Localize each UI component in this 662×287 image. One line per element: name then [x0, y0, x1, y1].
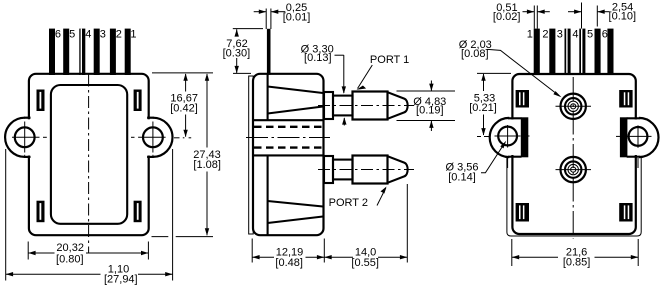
base plate bottom edge: [507, 228, 641, 237]
svg-text:[0.85]: [0.85]: [563, 256, 591, 268]
middle band top line: [254, 119, 324, 121]
back ear left arc: [490, 118, 510, 157]
top internal taper upper line: [268, 87, 323, 94]
dash-dot at ear center right: [174, 137, 180, 139]
mounting ear right arc: [153, 118, 173, 157]
pin 6: [49, 29, 55, 75]
pin top extension line: [233, 28, 263, 30]
dimension 0,51 arrows: [523, 11, 535, 13]
pin 2: [549, 29, 555, 75]
svg-text:[0.42]: [0.42]: [170, 102, 198, 114]
ear right tangent stubs: [147, 117, 154, 119]
pin 1: [534, 29, 540, 75]
dimension 12,19 line: [252, 256, 274, 258]
port 2 centerline: [318, 169, 414, 171]
svg-text:PORT 2: PORT 2: [329, 197, 368, 209]
dimension 2,54 arrows: [568, 11, 581, 13]
horizontal centerline mid: [246, 137, 330, 139]
port 1 centerline: [318, 105, 414, 107]
svg-text:[0.01]: [0.01]: [283, 11, 311, 23]
svg-text:3: 3: [557, 28, 563, 40]
sensor body outline: [29, 74, 149, 235]
ear left tangent stubs: [24, 117, 31, 119]
tab top-right: [619, 90, 632, 108]
svg-text:[0.30]: [0.30]: [223, 48, 251, 60]
hole right crosshair: [138, 136, 166, 138]
hidden dashed line lower: [254, 146, 323, 148]
pin 3: [94, 29, 100, 75]
svg-text:6: 6: [602, 28, 608, 40]
svg-text:[0.48]: [0.48]: [275, 257, 303, 269]
tab top-left: [37, 90, 45, 112]
back body outline: [512, 74, 635, 234]
dimension 5,33 line: [483, 74, 485, 91]
dimension 27,43 line: [206, 74, 208, 148]
ear left bracket bar: [521, 117, 529, 157]
svg-text:[0.80]: [0.80]: [56, 254, 84, 266]
inner cover rectangle: [51, 85, 127, 224]
mounting hole left: [15, 127, 35, 147]
pin 6: [607, 29, 613, 75]
dimension 21,6 line: [512, 256, 558, 258]
hole left crosshair: [12, 136, 40, 138]
port 1 circle outer: [561, 94, 586, 119]
svg-text:1: 1: [527, 28, 533, 40]
extension lines for 20,32: [27, 242, 29, 260]
pin 4: [79, 29, 85, 75]
hidden dashed line upper: [254, 126, 323, 128]
vertical centerline: [88, 75, 90, 253]
ear right bracket bar: [620, 117, 628, 157]
port 2 crosshair: [556, 169, 592, 171]
side body outline: [253, 74, 324, 235]
tab bottom-right: [619, 203, 632, 222]
port 2 circle rings: [565, 161, 581, 177]
svg-text:[0.14]: [0.14]: [448, 172, 476, 184]
back hole right: [629, 127, 648, 146]
hole right crosshair: [625, 135, 652, 137]
bottom extension line right: [152, 236, 169, 238]
hole left crosshair: [495, 135, 521, 137]
port 2 cone: [388, 156, 408, 183]
leader for Ø 3,56: [481, 143, 505, 173]
Ø 4,83 extension lines: [397, 90, 456, 92]
body top extension line left: [477, 72, 511, 74]
bottom internal taper lower line: [268, 217, 323, 224]
port 2 barb: [353, 156, 388, 184]
svg-text:20,32: 20,32: [56, 242, 84, 254]
svg-text:5: 5: [587, 28, 593, 40]
pin pitch extension lines: [581, 3, 583, 29]
svg-text:[0.08]: [0.08]: [461, 48, 489, 60]
svg-text:1: 1: [130, 28, 136, 40]
top extension line to dimensions: [152, 72, 213, 74]
port 1 barb: [353, 92, 388, 120]
body edge gap at left ear: [510, 120, 515, 156]
svg-text:[1.08]: [1.08]: [193, 159, 221, 171]
PORT 2 leader: [377, 188, 386, 206]
svg-text:[0.13]: [0.13]: [304, 52, 332, 64]
svg-text:[27,94]: [27,94]: [104, 274, 138, 286]
svg-text:5: 5: [69, 28, 75, 40]
tab bottom-right: [134, 201, 142, 223]
base plate edge: [249, 76, 254, 234]
internal vertical parting line upper: [267, 75, 269, 121]
dimension 1,10 line: [6, 273, 101, 275]
svg-text:[0.10]: [0.10]: [609, 11, 637, 23]
svg-text:[0.55]: [0.55]: [351, 257, 379, 269]
top internal taper lower line: [268, 107, 323, 114]
svg-text:4: 4: [85, 28, 91, 40]
pin 5: [595, 29, 601, 75]
ear right stubs: [627, 117, 641, 119]
base plate right edge: [640, 158, 642, 228]
svg-text:2: 2: [116, 28, 122, 40]
internal vertical parting line lower: [267, 155, 269, 234]
body edge gap at left ear: [27, 119, 32, 155]
svg-text:[0.21]: [0.21]: [469, 102, 497, 114]
svg-text:[0.19]: [0.19]: [416, 105, 444, 117]
Ø 4,83 arrows: [430, 81, 432, 91]
pin thickness extension lines: [265, 9, 267, 30]
port 1 circle rings: [565, 98, 581, 114]
pin (side): [267, 29, 271, 75]
PORT 1 leader: [358, 65, 373, 89]
tab bottom-left: [37, 201, 45, 223]
vertical centerline: [572, 77, 574, 239]
dimension 7,62 line: [236, 29, 238, 36]
port 2 collar: [324, 156, 333, 183]
svg-text:6: 6: [55, 28, 61, 40]
tab top-right: [134, 90, 142, 112]
body top extension line left: [233, 72, 251, 74]
svg-text:[0.02]: [0.02]: [493, 11, 521, 23]
pin 1: [125, 29, 131, 75]
extension lines for 1,10: [5, 149, 7, 281]
svg-text:PORT 1: PORT 1: [370, 54, 409, 66]
port 2 circle outer: [561, 157, 586, 182]
port 2 shaft: [333, 160, 353, 180]
svg-text:4: 4: [572, 28, 578, 40]
leader for Ø 3,30: [335, 54, 344, 56]
leader for Ø 2,03: [488, 49, 560, 96]
ear left stubs: [508, 117, 522, 119]
dimension 20,32 line: [28, 252, 54, 254]
dash-dot at ear center left: [477, 136, 481, 138]
middle band bottom line: [254, 154, 324, 156]
port 1 cone: [388, 92, 408, 119]
pin 2: [110, 29, 116, 75]
svg-text:2: 2: [542, 28, 548, 40]
port 1 shaft: [333, 96, 353, 116]
back ear right arc: [639, 118, 659, 157]
base plate left edge: [506, 158, 508, 228]
port 1 crosshair: [556, 105, 592, 107]
bottom internal taper upper line: [268, 201, 323, 207]
port 1 collar: [324, 92, 333, 119]
body edge gap at right ear: [633, 120, 638, 156]
pin 3: [565, 29, 571, 75]
pin 5: [63, 29, 69, 75]
bottom extension lines: [251, 239, 253, 263]
tab bottom-left: [516, 203, 529, 222]
body edge gap at right ear: [146, 119, 151, 155]
pin 4: [579, 29, 585, 75]
back hole left: [498, 127, 517, 146]
mounting ear left arc: [5, 118, 25, 157]
pin1 thickness extension lines: [533, 6, 535, 29]
dimension 16,67 line: [185, 74, 187, 92]
lower arrow for Ø 3,30: [343, 118, 345, 126]
dimension 14,0 line: [324, 256, 353, 258]
dimension 0,25 arrows: [254, 11, 266, 13]
svg-text:3: 3: [100, 28, 106, 40]
mounting hole right: [143, 127, 163, 147]
extension lines for 21,6: [511, 239, 513, 266]
tab top-left: [516, 90, 529, 108]
